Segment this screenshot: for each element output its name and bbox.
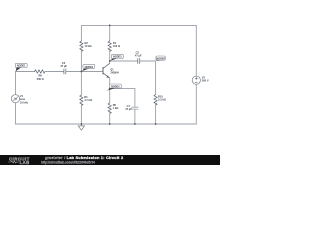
label R2 10 kΩ: [85, 41, 92, 48]
wire C3 to base junction: [66, 71, 103, 73]
transistor Q1: [103, 63, 110, 78]
resistor R5: [108, 103, 111, 113]
label R6 500 Ω: [37, 74, 44, 81]
resistor R4: [80, 95, 83, 105]
label R4 4.7 kΩ: [84, 95, 92, 102]
wire C2 to output corner: [140, 60, 156, 62]
node flag output: [156, 56, 166, 61]
wire input horizontal: [16, 71, 35, 73]
label C1 47 µF: [125, 104, 132, 111]
capacitor C2: [138, 59, 140, 64]
wire R2 bottom lead: [80, 50, 82, 71]
capacitor C1: [132, 107, 138, 109]
svg-text:3.3 kΩ: 3.3 kΩ: [158, 98, 166, 102]
svg-text:100 Ω: 100 Ω: [113, 44, 120, 48]
resistor R1: [108, 41, 111, 52]
label R10 3.3 kΩ: [158, 95, 166, 102]
wire R1 top lead: [109, 25, 111, 41]
wire left branch bottom: [15, 103, 17, 124]
svg-text:NODE3: NODE3: [113, 55, 122, 59]
capacitor C3: [64, 69, 66, 74]
node flag emitter: [107, 84, 122, 91]
node flag collector: [110, 54, 123, 61]
svg-text:10 kHz: 10 kHz: [20, 100, 29, 104]
wire R2 top lead: [80, 25, 82, 41]
label C2 47 µF: [135, 51, 142, 58]
svg-text:NODE2: NODE2: [85, 65, 94, 69]
resistor R10: [154, 95, 157, 105]
label V2 200 V: [202, 76, 209, 83]
wire collector output: [110, 60, 138, 62]
wire right branch bottom: [195, 84, 197, 124]
svg-text:NODE5: NODE5: [111, 84, 120, 88]
svg-text:10 kΩ: 10 kΩ: [85, 44, 92, 48]
wire R4 top lead: [80, 72, 82, 96]
junction dot top rail R1: [109, 25, 111, 27]
svg-text:47 µF: 47 µF: [135, 54, 142, 58]
voltage source V2: [192, 76, 200, 84]
junction dot base node: [81, 71, 83, 73]
svg-text:200 V: 200 V: [202, 79, 209, 83]
label R5 1 kΩ: [113, 103, 119, 110]
svg-text:47 µF: 47 µF: [125, 107, 132, 111]
svg-text:2N3904: 2N3904: [110, 72, 119, 75]
wire right branch top: [195, 25, 197, 76]
label R1 100 Ω: [113, 41, 120, 48]
junction dot ground rail R4: [81, 123, 83, 125]
label Q1 2N3904: [110, 69, 119, 75]
footer logo resistor squiggle: [8, 161, 19, 163]
footer bar: [0, 155, 220, 165]
svg-text:LAB: LAB: [20, 160, 30, 165]
wire emitter branch horizontal: [110, 88, 135, 90]
junction dot collector node: [109, 60, 111, 62]
wire C1 bottom lead: [134, 109, 136, 124]
svg-text:http://circuitlab.com/c5k22649: http://circuitlab.com/c5k22649c5r34: [41, 160, 95, 164]
svg-text:47 µF: 47 µF: [60, 64, 67, 68]
svg-text:NODE4: NODE4: [156, 56, 165, 60]
junction dot emitter node: [109, 88, 111, 90]
label C3 47 µF: [60, 61, 67, 68]
resistor R2: [80, 41, 83, 52]
junction dot ground rail C1: [134, 123, 136, 125]
wire bottom ground rail: [16, 123, 197, 125]
wire R5 bottom lead: [109, 112, 111, 124]
wire emitter to node: [109, 78, 111, 89]
junction dot ground rail R10: [155, 123, 157, 125]
junction dot ground rail R5: [109, 123, 111, 125]
wire emitter node to R5: [109, 89, 111, 103]
wire R1 to collector junction: [109, 50, 111, 63]
svg-text:NODE1: NODE1: [17, 64, 26, 68]
node flag base: [82, 64, 95, 71]
svg-text:gmeister / Lab Submission 1: C: gmeister / Lab Submission 1: Circuit 2: [45, 155, 124, 160]
ground: [78, 124, 84, 130]
voltage source V1 sine: [11, 95, 19, 103]
wire top rail VCC: [81, 24, 196, 26]
svg-text:500 Ω: 500 Ω: [37, 77, 44, 81]
node flag input: [15, 63, 27, 71]
label V1 sine 10 kHz: [20, 94, 29, 104]
wire R6 to C3: [45, 71, 64, 73]
wire R10 top lead: [155, 61, 157, 95]
resistor R6: [35, 70, 46, 73]
wire C1 top lead: [134, 89, 136, 107]
wire left branch top: [15, 72, 17, 95]
svg-text:4.7 kΩ: 4.7 kΩ: [84, 98, 92, 102]
svg-text:1 kΩ: 1 kΩ: [113, 106, 119, 110]
wire R10 bottom lead: [155, 104, 157, 124]
wire R4 bottom lead: [80, 104, 82, 124]
